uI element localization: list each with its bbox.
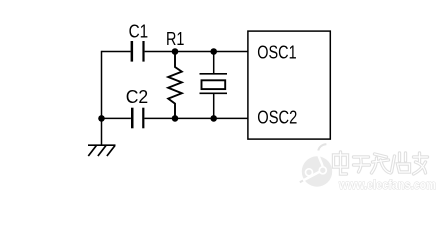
- op IC U1 box: [248, 31, 330, 139]
- node junction dot bottom crystal: [210, 115, 217, 122]
- svg-text:OSC2: OSC2: [257, 106, 297, 127]
- ground: [88, 145, 116, 156]
- crystal Y1: [200, 52, 228, 119]
- watermark logo disc: [300, 144, 332, 187]
- wire top rail left segment: [102, 51, 131, 53]
- svg-text:C2: C2: [126, 86, 149, 107]
- wire ground drop: [101, 118, 103, 145]
- wire top rail right segment: [145, 51, 248, 53]
- capacitor C1: [131, 41, 145, 62]
- svg-text:R1: R1: [166, 28, 184, 49]
- wire bottom rail left segment: [102, 117, 131, 119]
- node junction dot bottom R1: [172, 115, 179, 122]
- wire left vertical: [101, 51, 103, 119]
- capacitor C2: [131, 108, 144, 129]
- svg-text:C1: C1: [129, 21, 149, 42]
- resistor R1: [168, 52, 182, 119]
- watermark chinese text 电子发烧友 (approximated strokes): [334, 152, 428, 174]
- svg-text:OSC1: OSC1: [257, 41, 296, 62]
- wire bottom rail right segment: [144, 117, 247, 119]
- svg-text:www.elecfans.com: www.elecfans.com: [338, 177, 436, 192]
- node junction dot top R1: [172, 48, 179, 55]
- node junction dot bottom left (ground tap): [98, 115, 105, 122]
- node junction dot top crystal: [210, 48, 217, 55]
